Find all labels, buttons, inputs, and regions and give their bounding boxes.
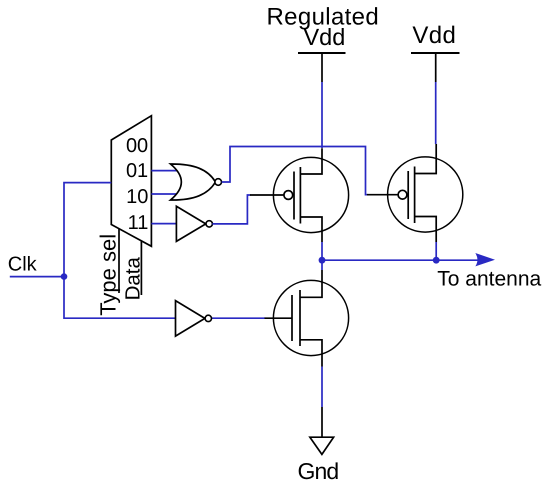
- multiplexer: [111, 116, 151, 247]
- ground lead: [321, 407, 323, 437]
- power rail Vdd: [411, 53, 460, 82]
- lower inverter bubble: [205, 315, 211, 321]
- wire M3 source to ground: [321, 367, 323, 408]
- wire mux 01 to NOR input: [151, 170, 177, 172]
- power rail Regulated Vdd: [298, 53, 346, 82]
- wire Clk to mux input: [64, 183, 111, 277]
- junction M2 output node: [433, 257, 440, 264]
- wire Regulated Vdd to M1 drain: [321, 82, 323, 148]
- wire Clk input: [10, 276, 64, 278]
- inverter (upper): [176, 206, 205, 241]
- wire M2 source to output: [435, 242, 437, 260]
- label Regulated Vdd: [267, 4, 380, 51]
- svg-text:Gnd: Gnd: [298, 458, 339, 484]
- NOR output bubble: [215, 179, 222, 186]
- wire output node vertical (M1 source to M3 drain): [321, 242, 323, 270]
- transistor M3 (NMOS): [265, 270, 349, 367]
- junction Clk node: [61, 273, 68, 280]
- svg-text:01: 01: [126, 160, 148, 182]
- ground symbol: [310, 437, 334, 454]
- wire mux 11 to upper inverter: [151, 223, 176, 225]
- upper inverter bubble: [206, 221, 212, 227]
- wire NOR output to M2 gate: [222, 147, 368, 195]
- transistor M1 (PMOS, regulated Vdd): [250, 148, 349, 242]
- junction output node: [319, 257, 326, 264]
- wire lower inverter output to M3 gate: [212, 317, 266, 319]
- mux select line (Type sel): [118, 229, 120, 293]
- mux select line (Data): [140, 241, 142, 295]
- svg-text:10: 10: [126, 186, 148, 208]
- svg-text:00: 00: [126, 135, 148, 157]
- inverter (lower): [176, 301, 205, 337]
- svg-text:Data: Data: [121, 256, 144, 300]
- NOR gate: [171, 164, 216, 200]
- wire to antenna: [322, 259, 478, 261]
- wire Vdd to M2 drain: [435, 82, 437, 144]
- wire upper inverter output to M1 gate: [212, 195, 250, 224]
- svg-text:Clk: Clk: [8, 254, 38, 276]
- svg-text:Vdd: Vdd: [412, 22, 456, 49]
- svg-text:Type sel: Type sel: [95, 234, 120, 316]
- svg-text:11: 11: [128, 212, 149, 234]
- transistor M2 (PMOS, Vdd): [367, 144, 463, 242]
- wire Clk to lower inverter: [64, 277, 176, 319]
- wire mux 10 to NOR input: [151, 193, 177, 195]
- svg-text:To antenna: To antenna: [437, 267, 541, 290]
- svg-text:Vdd: Vdd: [303, 24, 345, 50]
- arrowhead to antenna: [475, 253, 495, 266]
